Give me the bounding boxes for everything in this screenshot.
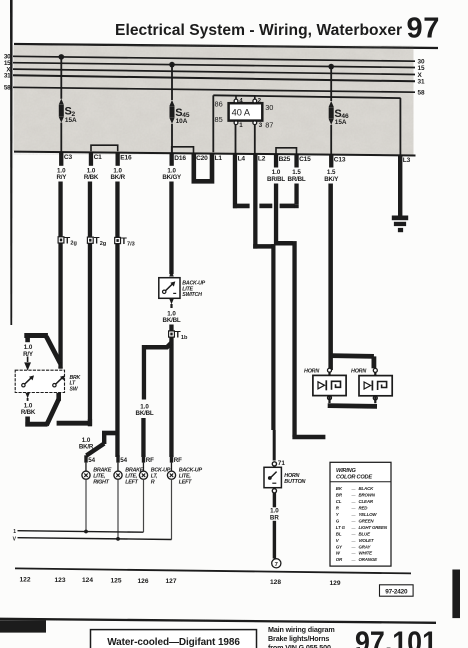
lamp back-up lite right	[142, 455, 145, 462]
svg-text:97: 97	[407, 13, 440, 45]
lamp back-up lite left	[170, 455, 173, 462]
wire horn button terminal 71	[272, 462, 276, 466]
svg-text:BK/BL: BK/BL	[136, 410, 154, 417]
svg-text:7/3: 7/3	[127, 241, 135, 247]
svg-text:BROWN: BROWN	[359, 493, 376, 498]
svg-text:LITE,: LITE,	[125, 474, 138, 480]
svg-text:D16: D16	[174, 155, 186, 162]
svg-text:BK: BK	[336, 486, 343, 491]
wire brake switch bottom tie	[25, 422, 47, 427]
bus bar X	[13, 69, 415, 74]
wire L3 drop to ground	[400, 98, 402, 155]
connector T2g on C1 wire	[87, 237, 93, 243]
svg-text:B25: B25	[279, 156, 291, 163]
svg-text:86: 86	[215, 100, 223, 109]
fuse S45 10A	[169, 62, 175, 68]
ground	[392, 216, 408, 233]
svg-text:BR/BL: BR/BL	[288, 176, 306, 183]
fuse panel bottom edge	[14, 152, 416, 156]
wire C3 1.0 R/Y	[59, 152, 63, 166]
svg-text:WHITE: WHITE	[359, 551, 374, 556]
svg-text:HORN: HORN	[304, 368, 319, 374]
svg-text:LITE,: LITE,	[93, 474, 106, 480]
jumper C1-E16	[91, 145, 118, 151]
svg-text:97.101: 97.101	[355, 626, 437, 648]
wire L4 to C15 link	[233, 204, 250, 209]
footer caption	[268, 625, 335, 648]
svg-text:R: R	[151, 480, 155, 486]
bus bar 15	[13, 63, 415, 68]
svg-text:85: 85	[215, 115, 223, 124]
wire C13 1.5 BK/Y	[329, 155, 333, 168]
svg-text:BLACK: BLACK	[359, 486, 375, 491]
svg-text:RED: RED	[359, 506, 369, 511]
current track baseline	[15, 568, 411, 573]
wire horns low side link	[292, 435, 325, 440]
wire L2 drop	[253, 154, 257, 249]
svg-text:GRAY: GRAY	[359, 544, 372, 549]
horn 1	[304, 368, 346, 403]
svg-text:R/Y: R/Y	[56, 174, 67, 181]
bus bar 30	[13, 56, 415, 61]
relay pin 3 (87)	[253, 121, 263, 153]
wire C15 drop	[294, 204, 298, 208]
back-up lite switch F4	[159, 278, 180, 299]
fuse S46 15A	[328, 64, 334, 70]
wire jumper C20-L1 loop	[194, 153, 212, 181]
svg-text:C1: C1	[94, 154, 103, 161]
svg-text:2g: 2g	[70, 241, 77, 247]
svg-text:124: 124	[82, 577, 93, 584]
svg-text:LEFT: LEFT	[179, 480, 192, 486]
wire brake lamp branch	[102, 431, 118, 436]
jumper B25-C15	[276, 148, 297, 154]
horn button switch	[264, 467, 281, 487]
footer model box	[91, 630, 257, 648]
fuse S2 15A	[59, 54, 65, 60]
connector T2g on C3 wire	[58, 237, 64, 243]
svg-text:C15: C15	[299, 156, 311, 163]
ground rail V	[18, 538, 172, 540]
svg-text:1: 1	[239, 122, 243, 129]
lamp brake lite left	[116, 455, 119, 462]
svg-text:COLOR CODE: COLOR CODE	[336, 474, 372, 480]
svg-text:BR: BR	[336, 493, 343, 498]
wire B25 jog	[274, 241, 293, 246]
svg-text:BK/R: BK/R	[111, 174, 126, 181]
svg-text:CL: CL	[336, 499, 342, 504]
wire D16 1.0 BK/GY	[170, 153, 174, 166]
wire ground drop	[398, 155, 402, 216]
svg-text:L1: L1	[215, 155, 223, 162]
wire brake switch left pole out 1.0 R/BK	[25, 393, 29, 399]
wire lamp drops to ground rails	[85, 479, 86, 531]
svg-text:126: 126	[137, 578, 148, 585]
wire into brake switch right pole	[58, 362, 63, 368]
ground rail 1	[18, 531, 144, 533]
svg-text:CLEAR: CLEAR	[359, 499, 374, 504]
wire into back-up switch	[169, 271, 174, 277]
svg-text:BR/BL: BR/BL	[267, 176, 285, 183]
wire horns high side bus	[331, 353, 374, 359]
bus bar 58	[13, 87, 415, 92]
svg-text:BK/GY: BK/GY	[162, 174, 182, 181]
svg-text:WIRING: WIRING	[336, 468, 356, 474]
wiring color code legend	[330, 462, 391, 566]
svg-text:3: 3	[259, 122, 263, 129]
bus bar 31	[13, 75, 415, 81]
svg-text:BR: BR	[270, 514, 279, 521]
svg-text:71: 71	[278, 460, 286, 467]
svg-text:YELLOW: YELLOW	[359, 512, 378, 517]
wire C15 1.5 BR/BL	[294, 154, 298, 167]
svg-text:54: 54	[88, 457, 95, 464]
svg-text:1b: 1b	[181, 335, 188, 341]
wire relay terminal line 86/30 to L1 and L3	[213, 95, 400, 98]
svg-text:7: 7	[275, 562, 278, 568]
relay pin 4 (86)	[234, 96, 243, 105]
wire C3 jog to brake switch	[24, 333, 48, 338]
svg-text:30: 30	[265, 103, 273, 112]
svg-text:LT,: LT,	[151, 474, 158, 480]
svg-text:C13: C13	[334, 156, 346, 163]
svg-text:54: 54	[120, 457, 127, 464]
svg-text:15: 15	[418, 65, 426, 72]
svg-text:BK/R: BK/R	[79, 444, 94, 451]
horn 2	[351, 368, 392, 403]
svg-text:BACK-UP: BACK-UP	[179, 467, 203, 473]
svg-text:2g: 2g	[100, 241, 107, 247]
svg-text:R/BK: R/BK	[84, 174, 99, 181]
svg-text:VIOLET: VIOLET	[359, 538, 374, 543]
svg-text:1: 1	[13, 529, 16, 535]
svg-text:127: 127	[165, 578, 176, 585]
wire out of back-up switch 1.0 BK/BL	[169, 299, 174, 305]
svg-text:BRAKE: BRAKE	[93, 467, 112, 473]
ground point 7	[272, 559, 281, 568]
svg-text:SWITCH: SWITCH	[182, 292, 202, 298]
svg-text:HORN: HORN	[284, 473, 299, 479]
svg-text:LIGHT GREEN: LIGHT GREEN	[359, 525, 388, 530]
svg-text:R/BK: R/BK	[21, 409, 36, 416]
svg-text:58: 58	[4, 85, 11, 92]
jumper D16-C20	[172, 147, 194, 153]
svg-text:129: 129	[329, 580, 340, 587]
svg-text:123: 123	[54, 577, 65, 584]
svg-text:2: 2	[258, 97, 262, 104]
svg-text:C3: C3	[64, 154, 73, 161]
svg-text:E16: E16	[120, 154, 132, 161]
svg-text:HORN: HORN	[351, 368, 366, 374]
svg-text:C20: C20	[196, 155, 208, 162]
svg-text:Brake lights/Horns: Brake lights/Horns	[268, 634, 329, 643]
svg-text:125: 125	[110, 578, 121, 585]
relay pin 1 (85)	[234, 121, 243, 153]
fuse panel shaded area	[14, 45, 414, 155]
svg-text:BLUE: BLUE	[359, 531, 372, 536]
svg-text:BL: BL	[336, 531, 342, 536]
svg-text:RF: RF	[174, 457, 182, 464]
svg-text:L2: L2	[258, 156, 266, 163]
wire back-up branch	[169, 337, 173, 457]
wire L4 drop	[233, 154, 237, 208]
svg-text:4: 4	[239, 97, 243, 104]
svg-text:31: 31	[4, 73, 11, 80]
relay 40A	[229, 103, 263, 120]
svg-text:40 A: 40 A	[232, 108, 251, 118]
svg-text:OR: OR	[336, 557, 343, 562]
svg-text:Water-cooled—Digifant 1986: Water-cooled—Digifant 1986	[107, 637, 240, 648]
svg-text:Electrical System - Wiring, Wa: Electrical System - Wiring, Waterboxer	[115, 22, 402, 39]
svg-text:ORANGE: ORANGE	[359, 557, 379, 562]
footer rule	[0, 619, 436, 623]
svg-text:LITE,: LITE,	[179, 474, 192, 480]
svg-text:L4: L4	[238, 155, 246, 162]
title rule	[14, 44, 438, 48]
plate number 97-2420	[380, 585, 414, 596]
wire E16 1.0 BK/R	[116, 153, 120, 166]
wire horns low side bus	[328, 403, 377, 409]
connector T7/3 on E16 wire	[115, 237, 121, 243]
svg-text:15A: 15A	[65, 117, 77, 124]
svg-text:SW: SW	[70, 386, 79, 392]
svg-text:RF: RF	[146, 457, 154, 464]
wire horn button feed	[271, 244, 275, 430]
wire C1 to switch tie	[57, 421, 91, 426]
svg-text:GREEN: GREEN	[359, 519, 375, 524]
svg-text:Main wiring diagram: Main wiring diagram	[268, 625, 335, 634]
wire B25 1.0 BR/BL	[274, 154, 278, 167]
wire C1 1.0 R/BK	[89, 152, 93, 165]
svg-text:from VIN G 055 500: from VIN G 055 500	[268, 643, 331, 648]
scan black tab	[452, 570, 460, 619]
svg-text:58: 58	[418, 90, 426, 97]
wire horns low side drop	[292, 241, 296, 437]
svg-text:87: 87	[265, 121, 273, 130]
svg-text:15A: 15A	[335, 119, 347, 126]
brake lite switch F	[15, 370, 65, 392]
svg-text:L3: L3	[403, 157, 411, 164]
wire horn button out 1.0 BR	[272, 489, 276, 493]
svg-text:BUTTON: BUTTON	[284, 479, 305, 485]
relay pin 2 (30)	[253, 96, 262, 104]
svg-text:R/Y: R/Y	[23, 351, 34, 358]
lamp brake lite right	[84, 455, 87, 462]
connector T1b on back-up wire	[169, 331, 175, 337]
wire L2 jog	[253, 244, 275, 249]
svg-text:LEFT: LEFT	[125, 480, 138, 486]
svg-text:RIGHT: RIGHT	[93, 480, 109, 486]
wire L1 riser	[212, 95, 214, 152]
svg-text:BK/BL: BK/BL	[163, 317, 181, 324]
svg-text:10A: 10A	[176, 118, 188, 125]
svg-text:128: 128	[270, 579, 281, 586]
svg-text:31: 31	[418, 79, 426, 86]
svg-text:97-2420: 97-2420	[385, 588, 408, 595]
svg-text:122: 122	[19, 577, 30, 584]
svg-text:LT G: LT G	[336, 525, 346, 530]
scan left page edge	[10, 0, 13, 325]
svg-text:BK/Y: BK/Y	[324, 176, 339, 183]
